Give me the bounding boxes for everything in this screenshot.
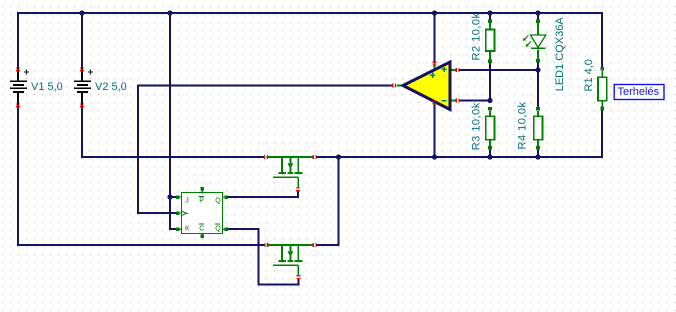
svg-text:C: C xyxy=(199,225,204,232)
svg-text:R2 10,0k: R2 10,0k xyxy=(471,12,483,60)
opamp plus input pin xyxy=(456,68,457,72)
wire LED top lead xyxy=(537,12,539,21)
label Terheles box xyxy=(614,85,664,100)
opamp bottom power pin xyxy=(433,100,437,101)
junction mid rail x338 xyxy=(336,154,341,159)
junction x170 top rail xyxy=(167,10,172,15)
wire left V1 vertical xyxy=(17,12,19,246)
svg-text:J: J xyxy=(185,197,189,204)
Q2 gate pin xyxy=(297,275,301,276)
junction mid rail R4 xyxy=(535,154,540,159)
flip-flop clock arrow xyxy=(182,211,186,215)
transistor Q1 upper mosfet xyxy=(267,157,315,188)
flip-flop pin labels xyxy=(185,197,221,232)
transistor Q1 arrow xyxy=(287,163,293,169)
battery V1 xyxy=(10,67,29,107)
wire right vertical bottom R1 xyxy=(601,109,603,159)
wire x170 vertical xyxy=(169,12,171,230)
opamp top power pin xyxy=(433,62,437,63)
resistor R1 xyxy=(598,67,607,110)
svg-text:P: P xyxy=(199,197,204,204)
flip-flop U2 xyxy=(176,187,228,238)
junction V2 top rail xyxy=(79,10,84,15)
wire Qbar horizontal xyxy=(228,228,260,230)
wire V2 vertical xyxy=(81,12,83,158)
svg-text:Q: Q xyxy=(215,197,221,204)
V2 top pin xyxy=(80,67,84,68)
resistor R2 xyxy=(486,20,495,64)
wire LED bottom to junction y70 xyxy=(537,61,539,70)
LED D1 xyxy=(523,20,546,63)
junction mid rail opamp power xyxy=(432,154,437,159)
wire R2 top lead xyxy=(489,12,491,21)
wire R2 bottom to R3 junction xyxy=(489,61,491,101)
svg-text:LED1 CQX36A: LED1 CQX36A xyxy=(554,17,566,92)
opamp output pin xyxy=(392,84,393,88)
wire right vertical top R1 xyxy=(601,12,603,69)
resistor R3 xyxy=(486,107,495,149)
svg-text:R3 10,0k: R3 10,0k xyxy=(471,102,483,150)
junction R2 R3 inverting node xyxy=(487,98,492,103)
wire Qbar down xyxy=(258,228,260,285)
wire clock feed xyxy=(137,212,176,214)
junction opamp power top rail xyxy=(432,10,437,15)
Q2 drain pin xyxy=(264,243,265,247)
wire junction y70 to R4 top xyxy=(537,70,539,109)
battery V2 xyxy=(74,67,93,107)
wire x138 vertical xyxy=(137,85,139,215)
svg-text:K: K xyxy=(185,225,190,232)
wire mid rail y157 right xyxy=(316,156,603,158)
wire riser x338 xyxy=(338,157,340,246)
junction mid rail R3 xyxy=(487,154,492,159)
wire lower gate riser xyxy=(298,279,300,286)
junction LED cathode R4 node xyxy=(535,67,540,72)
wire lower mosfet right to riser xyxy=(316,244,340,246)
wire opamp minus input to R junction xyxy=(459,100,491,102)
svg-text:Terhelés: Terhelés xyxy=(618,86,660,98)
wire K feed xyxy=(169,228,176,230)
wire J feed xyxy=(170,196,176,198)
wire Qbar bottom horizontal xyxy=(259,284,300,286)
wire upper gate riser xyxy=(297,191,299,198)
V2 bottom pin xyxy=(80,103,84,104)
wire opamp top power xyxy=(434,12,436,62)
opamp minus input pin xyxy=(456,99,457,103)
wire R4 bottom lead xyxy=(537,148,539,158)
svg-text:V2 5,0: V2 5,0 xyxy=(95,81,127,93)
wire top rail xyxy=(17,12,603,14)
Q1 drain pin xyxy=(264,155,265,159)
Q1 gate pin xyxy=(296,187,300,188)
Q2 source pin xyxy=(313,243,314,247)
transistor Q2 lower mosfet xyxy=(267,245,315,276)
svg-text:R1 4,0: R1 4,0 xyxy=(583,59,595,91)
svg-text:Q: Q xyxy=(215,225,221,232)
wire opamp plus input to LED junction xyxy=(459,69,539,71)
wire opamp output long xyxy=(138,85,393,87)
junction J input node xyxy=(167,194,172,199)
resistor R4 xyxy=(534,107,543,149)
junction R2 top rail xyxy=(487,10,492,15)
V1 bottom pin xyxy=(16,103,20,104)
svg-text:R4 10,0k: R4 10,0k xyxy=(517,101,529,149)
Q1 source pin xyxy=(313,155,314,159)
op-amp U1 xyxy=(396,62,456,110)
svg-text:V1 5,0: V1 5,0 xyxy=(31,81,63,93)
wire opamp bottom power xyxy=(434,105,436,158)
wire mid rail y157 left xyxy=(81,156,265,158)
wire R3 bottom lead xyxy=(489,148,491,158)
V1 top pin xyxy=(16,67,20,68)
wire bottom rail xyxy=(17,244,265,246)
transistor Q2 arrow xyxy=(287,251,293,257)
junction LED top rail xyxy=(535,10,540,15)
wire Q to upper gate xyxy=(228,196,300,198)
